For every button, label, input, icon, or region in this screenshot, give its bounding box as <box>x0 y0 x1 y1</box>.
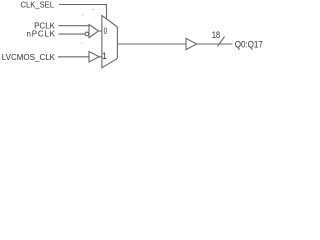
svg-text:0: 0 <box>104 26 108 36</box>
speck <box>81 42 82 43</box>
wire buffer output to mux input 0 <box>99 30 102 32</box>
wire CLK_SEL to mux select <box>59 5 107 20</box>
wire LVCMOS_CLK to input buffer <box>58 56 89 58</box>
wire mux output to output buffer <box>117 43 186 45</box>
svg-text:18: 18 <box>212 30 221 40</box>
mux (2:1 clock select) <box>102 16 118 68</box>
speck <box>92 9 93 10</box>
wire buffer output to mux input 1 <box>99 56 102 58</box>
wire nPCLK to inversion bubble <box>59 33 86 35</box>
speck <box>82 14 83 15</box>
inversion bubble on nPCLK input <box>85 32 89 36</box>
output buffer <box>186 38 197 49</box>
differential input buffer (PCLK/nPCLK) <box>89 25 99 38</box>
svg-text:1: 1 <box>102 51 107 61</box>
svg-text:nPCLK: nPCLK <box>27 30 56 39</box>
svg-text:Q0:Q17: Q0:Q17 <box>235 40 263 50</box>
LVCMOS input buffer <box>89 52 99 63</box>
svg-text:CLK_SEL: CLK_SEL <box>21 1 55 10</box>
svg-text:LVCMOS_CLK: LVCMOS_CLK <box>2 53 56 62</box>
bus width slash <box>218 37 225 47</box>
wire output buffer to Q outputs <box>197 43 233 45</box>
wire PCLK to input buffer <box>59 25 90 27</box>
